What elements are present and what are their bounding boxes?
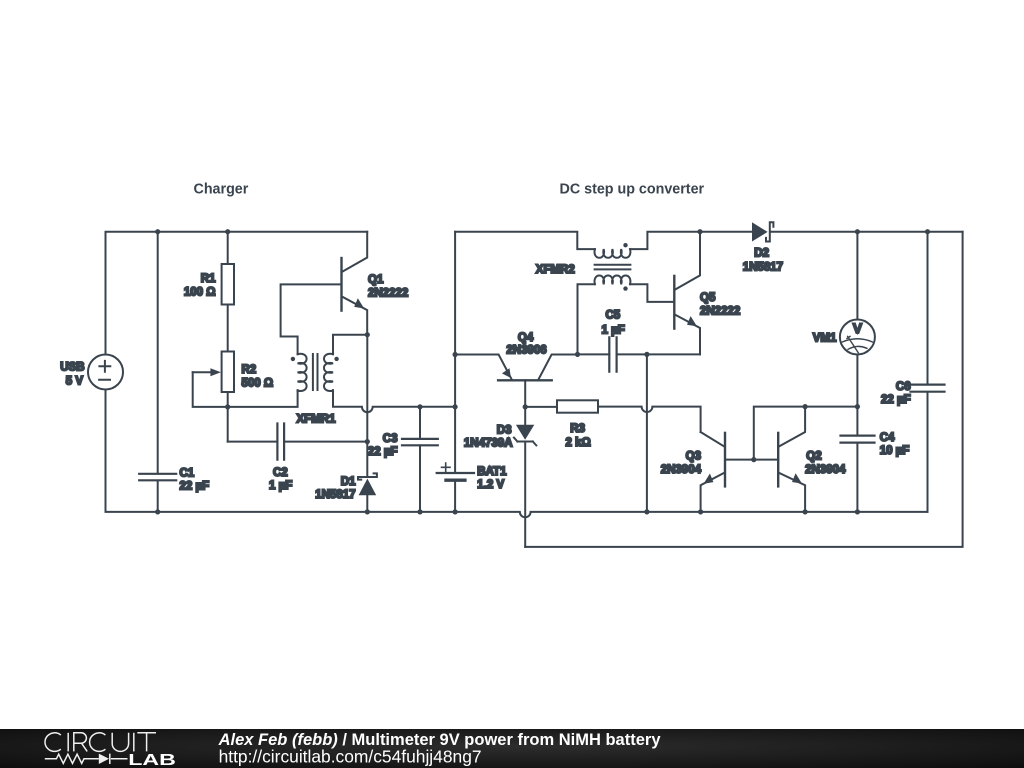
junction node Q5 collector xyxy=(697,229,702,234)
resistor R1 xyxy=(184,232,234,352)
svg-text:Charger: Charger xyxy=(194,182,249,198)
svg-text:22 µF: 22 µF xyxy=(368,446,398,458)
svg-text:1N4739A: 1N4739A xyxy=(464,438,513,450)
svg-text:BAT1: BAT1 xyxy=(477,466,507,478)
junction node Q3 emitter xyxy=(698,509,703,514)
wire usb bottom lead xyxy=(106,390,158,512)
junction node VM1 bottom xyxy=(855,404,860,409)
svg-text:XFMR2: XFMR2 xyxy=(536,264,575,276)
junction node rail bottom xyxy=(453,509,458,514)
svg-text:1.2 V: 1.2 V xyxy=(477,479,504,491)
svg-text:Q2: Q2 xyxy=(806,451,821,463)
capacitor C3 xyxy=(368,407,438,512)
junction node VM1 top xyxy=(855,229,860,234)
svg-text:1N5817: 1N5817 xyxy=(315,489,355,501)
svg-text:2N3904: 2N3904 xyxy=(805,464,846,476)
wire R2 wiper loop xyxy=(193,372,228,407)
junction node C1 top xyxy=(155,229,160,234)
svg-text:C1: C1 xyxy=(180,468,195,480)
svg-text:2N2222: 2N2222 xyxy=(368,287,408,299)
junction node feedback bottom xyxy=(644,509,649,514)
svg-text:Q5: Q5 xyxy=(700,292,716,304)
junction node Q4 collector / XFMR2 xyxy=(575,352,580,357)
svg-text:V: V xyxy=(853,320,863,336)
voltmeter VM1 xyxy=(813,232,875,407)
svg-text:C3: C3 xyxy=(383,433,398,445)
wire Q1 emitter down to D1 xyxy=(366,335,368,442)
transistor Q1 xyxy=(342,232,409,335)
logo doodle resistor diode xyxy=(45,754,128,764)
capacitor C2 xyxy=(228,424,368,493)
junction node C1 bottom xyxy=(155,509,160,514)
potentiometer R2 xyxy=(193,352,273,442)
svg-text:Q3: Q3 xyxy=(686,451,701,463)
svg-text:LAB: LAB xyxy=(128,752,176,768)
svg-text:USB: USB xyxy=(60,362,84,374)
wire XFMR2 secondary left to C5 node xyxy=(578,284,595,354)
svg-text:2N2222: 2N2222 xyxy=(700,305,740,317)
wire top rail charger xyxy=(106,232,368,355)
svg-text:C6: C6 xyxy=(896,381,911,393)
svg-text:C5: C5 xyxy=(606,310,621,322)
svg-text:Q1: Q1 xyxy=(368,274,384,286)
junction node C2 right / D1 top xyxy=(365,439,370,444)
wire feedback line xyxy=(525,232,962,547)
transformer XFMR1 xyxy=(291,354,339,426)
wire XFMR1 secondary top to Q1 emitter node xyxy=(333,335,367,355)
svg-text:D2: D2 xyxy=(754,248,769,260)
svg-text:1N5817: 1N5817 xyxy=(743,262,783,274)
wire base node to mirror top xyxy=(754,407,858,460)
svg-text:R2: R2 xyxy=(242,364,257,376)
junction node R1 top xyxy=(225,229,230,234)
svg-text:C4: C4 xyxy=(880,432,895,444)
transformer XFMR2 xyxy=(536,243,631,291)
svg-text:500 Ω: 500 Ω xyxy=(242,378,274,390)
junction node rail-output xyxy=(453,404,458,409)
junction node Q4 base / D3 / R3 xyxy=(523,404,528,409)
wire C5 to Q5 emitter xyxy=(647,353,700,355)
svg-text:1 µF: 1 µF xyxy=(269,480,292,492)
transistor Q2 xyxy=(754,407,846,512)
wire XFMR2 secondary right to Q5 base xyxy=(630,284,674,302)
footer bar xyxy=(0,729,1024,768)
svg-text:10 µF: 10 µF xyxy=(880,445,910,457)
transistor Q3 xyxy=(661,432,754,512)
svg-text:http://circuitlab.com/c54fuhjj: http://circuitlab.com/c54fuhjj48ng7 xyxy=(219,747,482,767)
svg-text:DC step up converter: DC step up converter xyxy=(560,182,705,198)
svg-text:22 µF: 22 µF xyxy=(881,394,911,406)
svg-text:100 Ω: 100 Ω xyxy=(184,287,216,299)
svg-text:2 kΩ: 2 kΩ xyxy=(566,437,591,449)
diode D1 1N5817 xyxy=(315,442,377,512)
logo CIRCUIT xyxy=(45,733,156,752)
svg-text:1 µF: 1 µF xyxy=(602,324,625,336)
junction node C4 bottom xyxy=(855,509,860,514)
wire top rail converter xyxy=(455,232,962,249)
junction node Q2 emitter xyxy=(803,509,808,514)
junction node rail-Q4 emitter xyxy=(453,352,458,357)
voltage source USB xyxy=(60,355,123,390)
transistor Q5 xyxy=(674,232,740,355)
wire XFMR1 primary top to Q1 base xyxy=(281,284,342,354)
junction node C3 bottom xyxy=(417,509,422,514)
wire XFMR1 secondary bottom to output xyxy=(333,390,455,412)
capacitor C6 xyxy=(881,232,945,512)
capacitor C1 xyxy=(139,232,209,512)
wire bottom rail xyxy=(158,512,928,517)
junction node C5 right xyxy=(644,352,649,357)
wire R2 bottom to XFMR1 primary xyxy=(228,390,298,407)
svg-text:D1: D1 xyxy=(341,476,356,488)
wire C5 node down to bottom rail xyxy=(646,354,648,512)
junction node Q1 emitter xyxy=(365,332,370,337)
junction node Q2 collector xyxy=(803,404,808,409)
wire right section left rail xyxy=(454,232,456,512)
svg-text:D3: D3 xyxy=(497,424,512,436)
svg-text:2N3904: 2N3904 xyxy=(661,464,702,476)
diode D2 1N5817 xyxy=(743,222,783,273)
capacitor C5 xyxy=(578,310,647,372)
svg-text:2N3906: 2N3906 xyxy=(506,344,546,356)
junction node R2 bottom xyxy=(225,404,230,409)
junction node Q2 Q3 bases xyxy=(751,457,756,462)
svg-text:C2: C2 xyxy=(273,467,288,479)
svg-text:VM1: VM1 xyxy=(813,333,837,345)
junction node D1 bottom xyxy=(365,509,370,514)
capacitor C4 xyxy=(841,407,910,512)
junction node C6 top xyxy=(925,229,930,234)
resistor R3 xyxy=(525,400,700,449)
svg-text:XFMR1: XFMR1 xyxy=(297,413,337,425)
transistor Q4 PNP xyxy=(455,332,577,407)
svg-text:22 µF: 22 µF xyxy=(180,481,210,493)
junction node C3 top xyxy=(417,404,422,409)
svg-text:R1: R1 xyxy=(201,273,216,285)
zener D3 1N4739A xyxy=(464,407,536,547)
svg-text:Q4: Q4 xyxy=(518,332,534,344)
svg-text:5 V: 5 V xyxy=(66,376,84,388)
svg-text:R3: R3 xyxy=(570,423,585,435)
battery BAT1 xyxy=(437,463,507,491)
